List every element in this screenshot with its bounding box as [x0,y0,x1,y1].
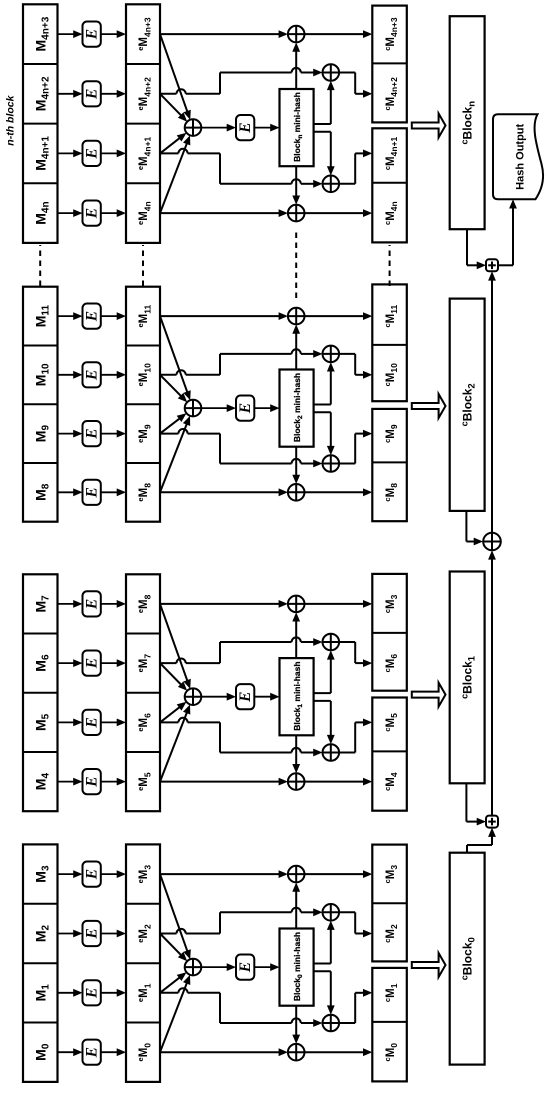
cM right divider [372,62,407,64]
wire E to eM col 0 [101,781,119,783]
register row cM right (Block_0) [372,845,407,962]
mini-hash box (Block_n) [280,89,314,166]
wire outer xor col 3 to cM [305,315,365,317]
wire M_4n+1 to E [58,152,76,154]
wire eM col 2 stepped to inner xor [160,933,177,935]
wire E to mini-hash [254,696,272,698]
cipher E box col 3 (Block_2) [83,304,101,329]
register row eM (Block_2) [126,287,160,522]
wire E to eM col 3 [101,315,119,317]
wire eM col 2 diagonal to xor tree [160,375,182,397]
register row M (Block_2) [23,287,58,522]
svg-text:E: E [84,599,101,610]
xor tree (Block_n) [185,119,202,136]
svg-text:E: E [84,208,101,219]
xor inner col 2 (Block_n) [323,64,340,81]
xor tree (Block_0) [185,959,202,976]
svg-text:E: E [237,962,254,973]
wire eM col 1 diagonal to xor tree [160,418,181,434]
xor-box chain node 0 [486,816,498,828]
wire mini-hash stub to inner xor col 2 [314,404,331,406]
register row cM right (Block_2) [372,284,407,401]
wire M_4n+2 to E [58,93,76,95]
wire E to eM col 0 [101,212,119,214]
M row divider [23,63,58,65]
wire E to eM col 3 [101,873,119,875]
cipher E box mid (Block_1) [236,684,254,709]
cipher E box col 3 (Block_1) [83,591,101,616]
cipher E box mid (Block_0) [236,955,254,980]
open arrow to cBlock (Block_0) [412,953,446,977]
eM row divider [126,462,160,464]
wire eM col 3 diagonal to xor tree [160,874,188,952]
wire M_4n to E [58,212,76,214]
wire E to mini-hash [254,966,272,968]
cipher E box col 3 (Block_0) [83,862,101,887]
wire xor tree to E [201,127,228,129]
ellipsis dashes cM row [389,245,391,286]
wire outer xor col 0 to cM [305,781,365,783]
xor inner col 1 (Block_n) [323,176,340,193]
xor inner col 1 (Block_0) [323,1015,340,1032]
xor outer col 3 (Block_1) [288,596,305,613]
register row M (Block_0) [23,844,58,1082]
svg-text:E: E [84,148,101,159]
wire E to eM col 2 [101,662,119,664]
wire eM col 1 diagonal to xor tree [160,137,181,153]
wire mini-hash left output to outer xor col 0 [295,166,297,197]
wire mini-hash stub to inner xor col 1 [314,131,331,133]
eM row divider [126,182,160,184]
wire inner xor col 2 to cM [339,353,355,355]
wire E to eM col 2 [101,374,119,376]
register row cM left (Block_0) [372,968,407,1082]
wire E to eM col 1 [101,433,119,435]
wire M_4 to E [58,781,76,783]
wire mini-hash stub to inner xor col 2 [314,692,331,694]
eM row divider [126,63,160,65]
wire eM col 3 down to outer xor [160,603,280,605]
M row divider [23,633,58,635]
wire M_3 to E [58,873,76,875]
cM left divider [372,1021,407,1023]
wire eM col 1 stepped to inner xor [160,992,178,994]
wire xor tree to E [201,407,228,409]
cipher E box col 2 (Block_2) [83,362,101,387]
register row eM (Block_n) [126,4,160,243]
cipher E box col 1 (Block_2) [83,421,101,446]
wire inner xor col 1 to cM [339,183,355,185]
wire eM col 0 diagonal to xor tree [160,982,187,1052]
svg-text:E: E [84,311,101,322]
wire E to eM col 1 [101,992,119,994]
cipher E box mid (Block_n) [236,115,254,140]
wire eM col 0 down to outer xor [160,1051,280,1053]
wire eM col 2 diagonal to xor tree [160,934,182,956]
M row divider [23,345,58,347]
register row cM right (Block_n) [372,6,407,123]
eM row divider [126,123,160,125]
wire eM col 0 diagonal to xor tree [160,712,187,782]
svg-text:E: E [84,487,101,498]
xor inner col 2 (Block_0) [323,904,340,921]
register row eM (Block_0) [126,844,160,1082]
M row divider [23,462,58,464]
wire eM col 2 stepped to inner xor [160,93,177,95]
wire eM col 1 diagonal to xor tree [160,706,181,722]
hash output document [493,114,543,199]
cBlock box (Block_n) [450,16,485,229]
svg-text:E: E [84,928,101,939]
eM row divider [126,403,160,405]
wire mini-hash stub to inner xor col 2 [314,123,331,125]
mini-hash box (Block_1) [280,658,314,735]
cBlock box (Block_1) [450,572,485,784]
wire E to eM col 0 [101,491,119,493]
wire inner xor col 1 to cM [339,1022,355,1024]
svg-text:E: E [84,717,101,728]
wire outer xor col 0 to cM [305,1051,365,1053]
cipher E box col 3 (Block_n) [83,22,101,47]
cipher E box col 2 (Block_n) [83,81,101,106]
xor outer col 0 (Block_0) [288,1044,305,1061]
svg-text:E: E [84,29,101,40]
xor outer col 0 (Block_n) [288,205,305,222]
ellipsis dashes xor row [295,230,297,298]
xor-circle chain node 1 [483,533,501,551]
wire eM col 3 down to outer xor [160,33,280,35]
xor inner col 2 (Block_1) [323,634,340,651]
eM row divider [126,1022,160,1024]
wire M_8 to E [58,491,76,493]
register row eM (Block_1) [126,574,160,811]
wire mini-hash stub to inner xor col 1 [314,970,331,972]
wire eM col 0 diagonal to xor tree [160,142,187,213]
wire chain node1 to node2 [491,279,493,533]
cBlock box (Block_2) [450,299,485,511]
wire inner xor col 1 to cM [339,752,355,754]
wire outer xor col 0 to cM [305,212,365,214]
wire inner xor col 1 to cM [339,463,355,465]
wire M_10 to E [58,374,76,376]
mini-hash box (Block_0) [280,929,314,1006]
cipher E box mid (Block_2) [236,396,254,421]
cM left divider [372,461,407,463]
wire M_6 to E [58,662,76,664]
eM row divider [126,962,160,964]
register row cM right (Block_1) [372,574,407,691]
wire inner xor col 2 to cM [339,641,355,643]
wire eM col 2 stepped to inner xor [160,662,177,664]
section Block_1 [23,572,485,812]
wire eM col 3 diagonal to xor tree [160,604,188,682]
wire xor tree to E [201,696,228,698]
M row divider [23,751,58,753]
ellipsis dashes M row [39,245,41,286]
xor outer col 3 (Block_n) [288,26,305,43]
wire eM col 2 diagonal to xor tree [160,663,182,685]
wire eM col 0 diagonal to xor tree [160,423,187,492]
svg-text:Hash Output: Hash Output [515,123,527,189]
xor tree (Block_1) [185,688,202,705]
wire E to eM col 3 [101,603,119,605]
wire E to eM col 3 [101,33,119,35]
wire mini-hash left output to outer xor col 0 [295,1006,297,1037]
wire mini-hash right output to outer xor col 3 [295,620,297,658]
M row divider [23,1022,58,1024]
wire mini-hash stub to inner xor col 1 [314,700,331,702]
svg-text:n-th block: n-th block [5,94,17,145]
cipher E box col 1 (Block_n) [83,141,101,166]
svg-text:E: E [84,428,101,439]
wire mini-hash left output to outer xor col 0 [295,447,297,477]
M row divider [23,123,58,125]
svg-text:E: E [84,370,101,381]
xor outer col 0 (Block_1) [288,773,305,790]
svg-text:E: E [84,89,101,100]
svg-text:E: E [84,1047,101,1058]
svg-text:E: E [84,988,101,999]
wire cBlock_0 output tap [466,845,468,853]
xor inner col 1 (Block_2) [323,455,340,472]
eM row divider [126,633,160,635]
wire M_0 to E [58,1051,76,1053]
wire eM col 3 diagonal to xor tree [160,34,188,113]
cM right divider [372,902,407,904]
wire cBlock_2 output tap [465,511,467,542]
wire mini-hash right output to outer xor col 3 [295,890,297,929]
wire E to eM col 1 [101,721,119,723]
register row cM left (Block_2) [372,409,407,521]
wire mini-hash stub to inner xor col 1 [314,411,331,413]
wire mini-hash right output to outer xor col 3 [295,50,297,89]
wire outer xor col 3 to cM [305,33,365,35]
M row divider [23,403,58,405]
wire eM col 0 down to outer xor [160,781,280,783]
wire eM col 1 stepped to inner xor [160,433,178,435]
cipher E box col 0 (Block_1) [83,769,101,794]
wire outer xor col 3 to cM [305,873,365,875]
M row divider [23,182,58,184]
wire E to eM col 1 [101,152,119,154]
register row M (Block_n) [23,4,58,243]
wire M_5 to E [58,721,76,723]
M row divider [23,692,58,694]
cM right divider [372,632,407,634]
register row M (Block_1) [23,574,58,811]
wire M_2 to E [58,933,76,935]
section Block_2 [23,284,485,521]
xor inner col 2 (Block_2) [323,346,340,363]
xor inner col 1 (Block_1) [323,744,340,761]
wire eM col 3 down to outer xor [160,873,280,875]
xor outer col 3 (Block_0) [288,866,305,883]
cipher E box col 2 (Block_0) [83,921,101,946]
wire cBlock_n output tap [466,229,468,265]
wire E to mini-hash [254,127,272,129]
wire eM col 1 diagonal to xor tree [160,977,181,993]
section Block_0 [23,844,485,1082]
wire E to eM col 2 [101,933,119,935]
wire E to eM col 2 [101,93,119,95]
cipher E box col 1 (Block_1) [83,710,101,735]
xor-box chain node 2 [486,259,498,271]
cM left divider [372,750,407,752]
wire M_7 to E [58,603,76,605]
section Block_n [23,4,485,243]
wire eM col 0 down to outer xor [160,491,280,493]
svg-text:E: E [84,658,101,669]
cM left divider [372,182,407,184]
open arrow to cBlock (Block_n) [412,114,446,138]
svg-text:E: E [237,122,254,133]
cipher E box col 0 (Block_n) [83,201,101,226]
wire M_9 to E [58,433,76,435]
wire mini-hash stub to inner xor col 2 [314,963,331,965]
wire xor tree to E [201,966,228,968]
wire M_11 to E [58,315,76,317]
M row divider [23,962,58,964]
wire eM col 3 down to outer xor [160,315,280,317]
svg-text:E: E [84,776,101,787]
svg-text:E: E [237,403,254,414]
wire chain node2 to hash output [498,264,513,266]
wire eM col 3 diagonal to xor tree [160,316,188,393]
open arrow to cBlock (Block_1) [412,683,446,707]
wire eM col 1 stepped to inner xor [160,721,178,723]
wire eM col 0 down to outer xor [160,212,280,214]
wire mini-hash left output to outer xor col 0 [295,735,297,766]
wire eM col 2 stepped to inner xor [160,374,177,376]
svg-text:E: E [237,692,254,703]
register row cM left (Block_n) [372,128,407,242]
cipher E box col 0 (Block_0) [83,1040,101,1065]
svg-text:E: E [84,869,101,880]
wire chain node0 to xor node1 [491,558,493,816]
wire outer xor col 3 to cM [305,603,365,605]
wire E to eM col 0 [101,1051,119,1053]
ellipsis dashes eM row [142,245,144,286]
cipher E box col 1 (Block_0) [83,980,101,1005]
wire M_1 to E [58,992,76,994]
mini-hash box (Block_2) [280,370,314,447]
cipher E box col 0 (Block_2) [83,480,101,505]
xor outer col 0 (Block_2) [288,484,305,501]
wire cBlock_1 output tap [465,783,467,821]
open arrow to cBlock (Block_2) [412,394,446,418]
cipher E box col 2 (Block_1) [83,651,101,676]
eM row divider [126,903,160,905]
register row cM left (Block_1) [372,698,407,811]
xor tree (Block_2) [185,400,202,417]
eM row divider [126,345,160,347]
wire eM col 1 stepped to inner xor [160,152,178,154]
M row divider [23,903,58,905]
wire outer xor col 0 to cM [305,491,365,493]
wire mini-hash right output to outer xor col 3 [295,332,297,370]
xor outer col 3 (Block_2) [288,308,305,325]
wire E to mini-hash [254,407,272,409]
wire inner xor col 2 to cM [339,72,355,74]
cBlock box (Block_0) [450,853,485,1065]
eM row divider [126,692,160,694]
wire inner xor col 2 to cM [339,911,355,913]
eM row divider [126,751,160,753]
cM right divider [372,344,407,346]
wire M_4n+3 to E [58,33,76,35]
wire eM col 2 diagonal to xor tree [160,94,182,117]
